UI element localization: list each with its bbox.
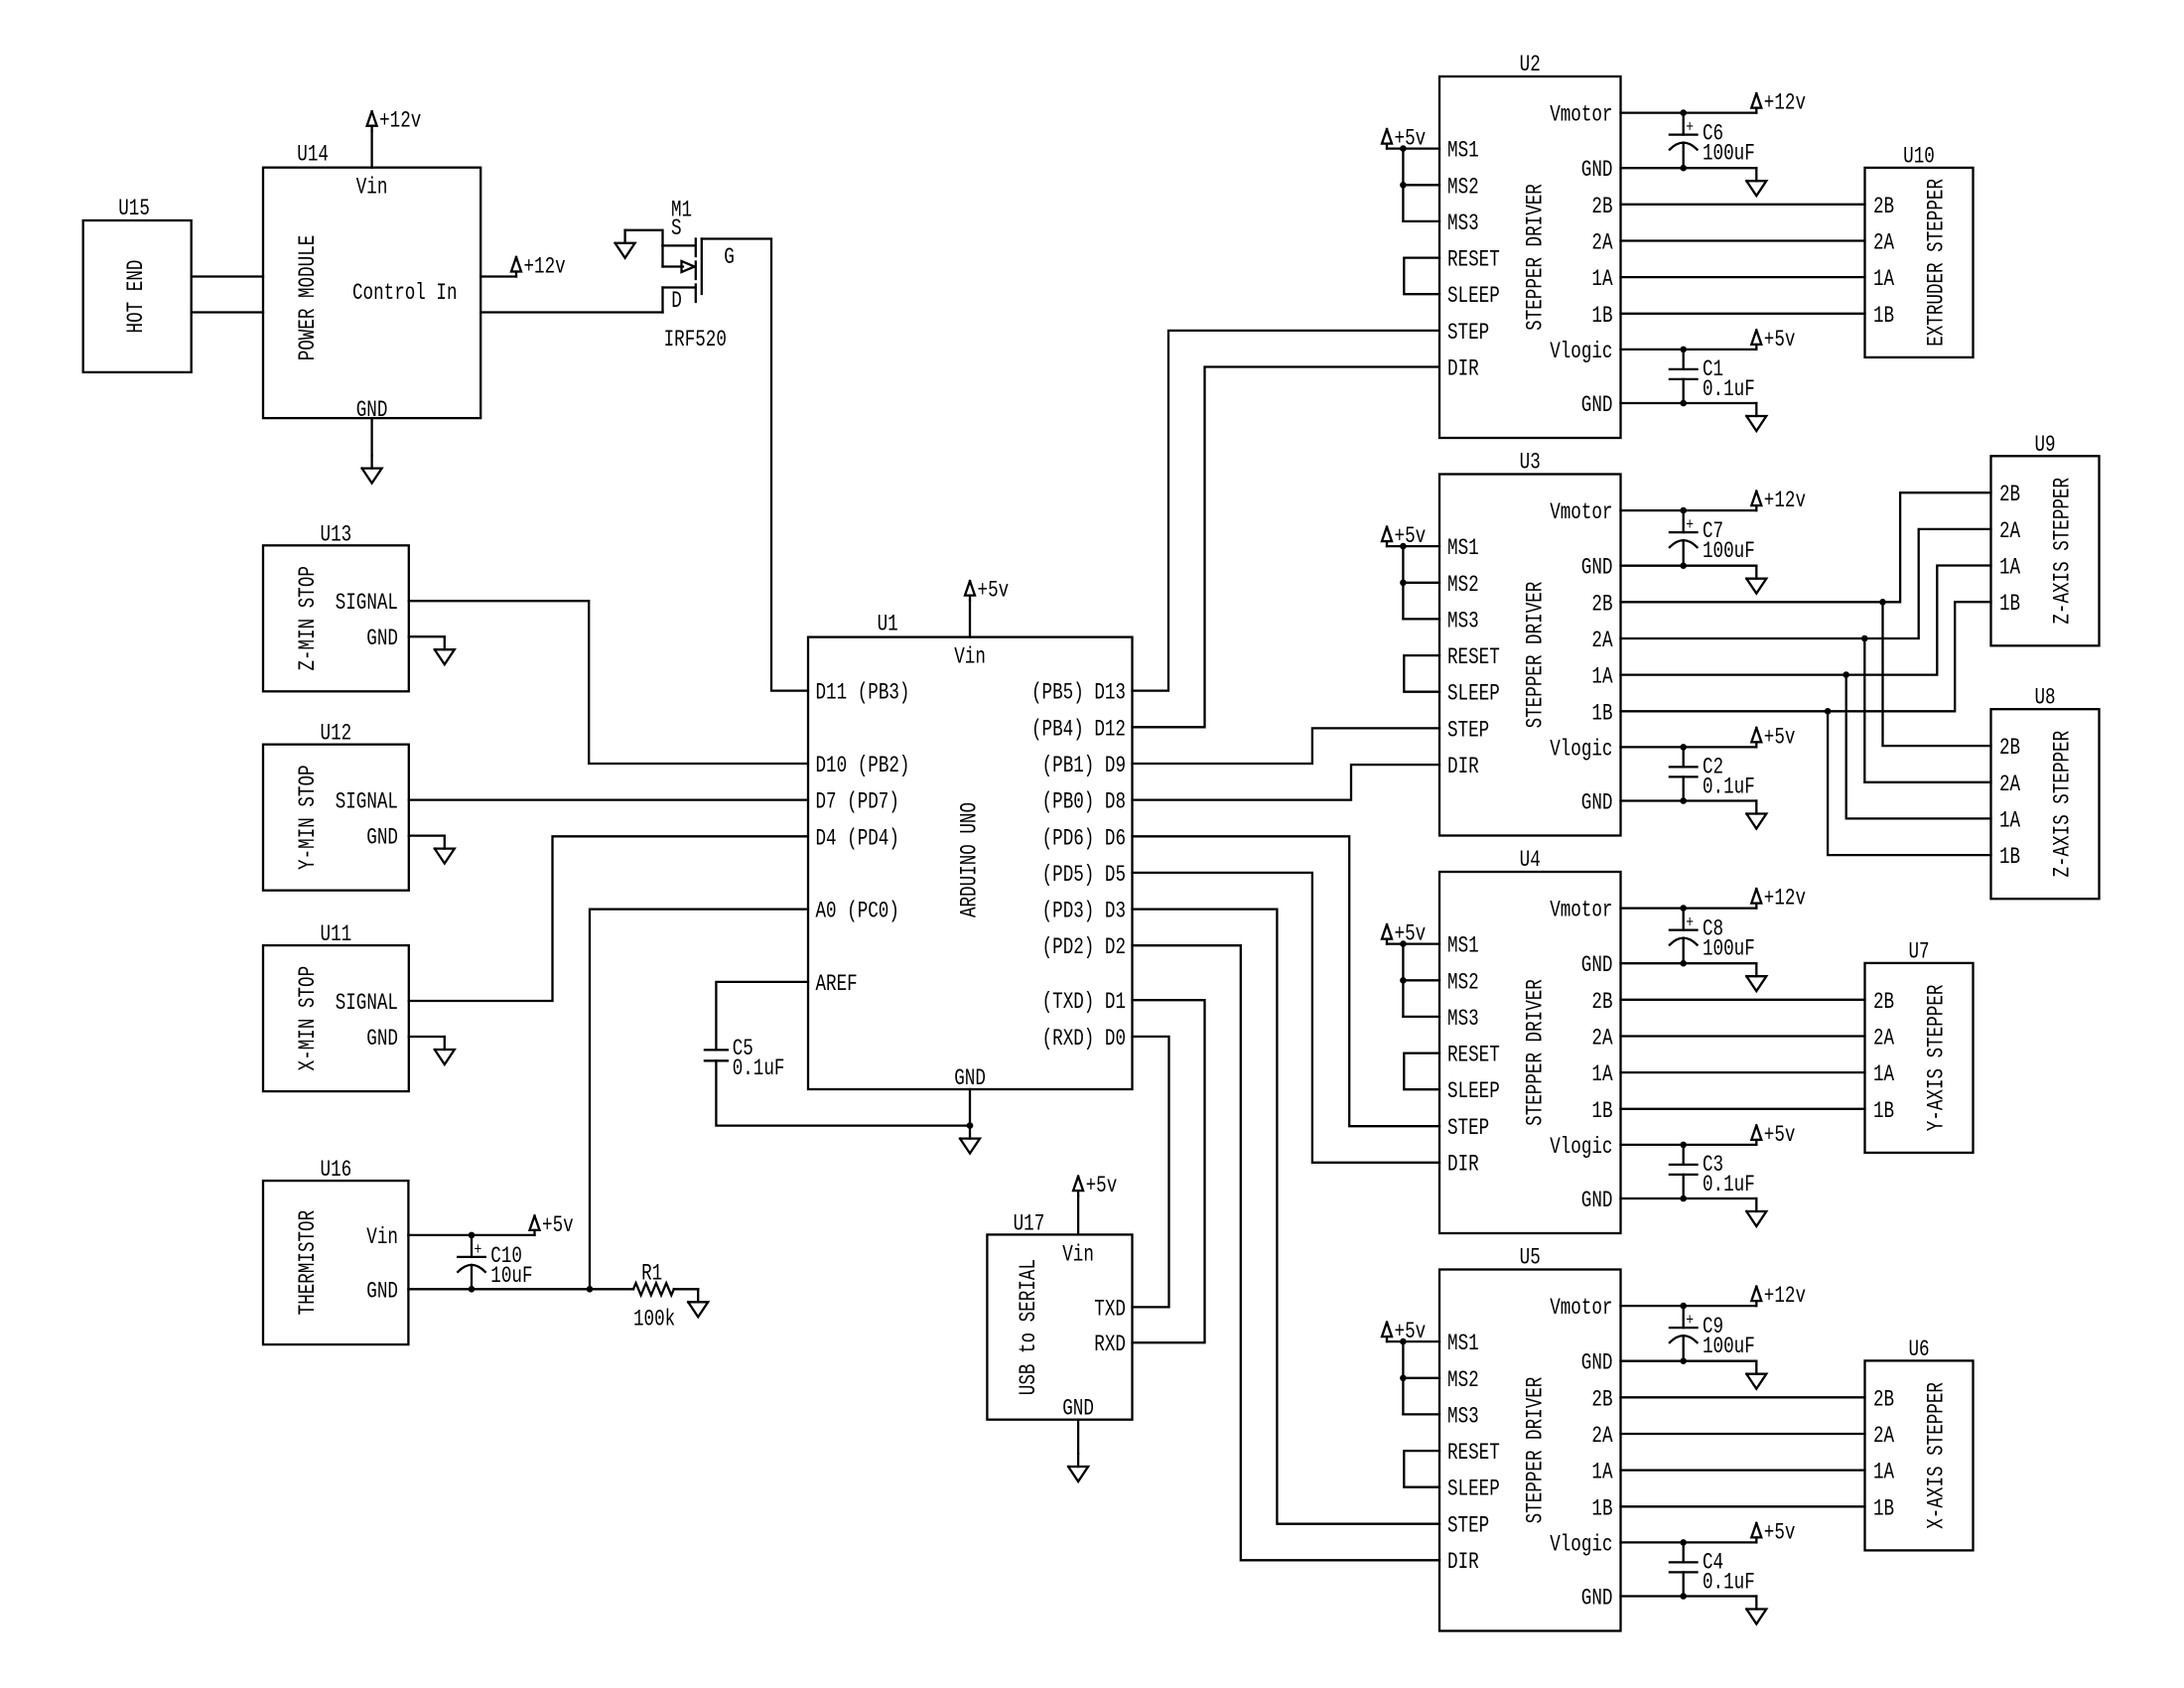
svg-text:STEPPER DRIVER: STEPPER DRIVER [1522, 979, 1548, 1126]
svg-text:RXD: RXD [1094, 1332, 1126, 1357]
svg-text:Vlogic: Vlogic [1550, 1134, 1612, 1160]
svg-text:DIR: DIR [1447, 356, 1479, 382]
svg-text:(PB5) D13: (PB5) D13 [1031, 680, 1126, 706]
svg-text:MS1: MS1 [1447, 933, 1479, 959]
svg-text:Z-AXIS STEPPER: Z-AXIS STEPPER [2050, 478, 2076, 625]
svg-text:MS2: MS2 [1447, 572, 1479, 598]
svg-text:USB to SERIAL: USB to SERIAL [1016, 1259, 1041, 1395]
svg-text:+5v: +5v [1086, 1173, 1118, 1198]
svg-text:Vin: Vin [954, 644, 986, 670]
svg-text:U17: U17 [1014, 1210, 1045, 1236]
svg-text:R1: R1 [641, 1260, 662, 1286]
svg-text:1B: 1B [1591, 700, 1612, 726]
svg-text:1A: 1A [1591, 1460, 1612, 1485]
svg-text:D10 (PB2): D10 (PB2) [816, 753, 910, 778]
svg-text:Vmotor: Vmotor [1550, 898, 1612, 923]
svg-text:STEPPER DRIVER: STEPPER DRIVER [1522, 1377, 1548, 1524]
svg-text:1A: 1A [1591, 664, 1612, 690]
svg-text:SLEEP: SLEEP [1447, 681, 1500, 707]
svg-text:HOT END: HOT END [123, 260, 149, 334]
svg-text:+12v: +12v [379, 108, 421, 134]
svg-text:2B: 2B [1591, 989, 1612, 1015]
svg-text:U13: U13 [321, 521, 352, 547]
svg-text:Y-MIN STOP: Y-MIN STOP [295, 765, 321, 870]
svg-text:100uF: 100uF [1703, 936, 1755, 962]
svg-text:0.1uF: 0.1uF [1703, 1172, 1755, 1197]
svg-text:100uF: 100uF [1703, 1334, 1755, 1359]
svg-text:Y-AXIS STEPPER: Y-AXIS STEPPER [1924, 984, 1950, 1131]
svg-text:STEPPER DRIVER: STEPPER DRIVER [1522, 184, 1548, 331]
svg-text:Vlogic: Vlogic [1550, 339, 1612, 364]
svg-text:+5v: +5v [1764, 327, 1796, 352]
svg-text:0.1uF: 0.1uF [1703, 1569, 1755, 1595]
svg-text:1B: 1B [1873, 1098, 1894, 1124]
svg-text:+12v: +12v [1764, 886, 1806, 912]
svg-text:STEPPER DRIVER: STEPPER DRIVER [1522, 582, 1548, 729]
svg-text:(PB0) D8: (PB0) D8 [1042, 789, 1126, 815]
svg-text:POWER MODULE: POWER MODULE [295, 235, 321, 361]
svg-text:(PB1) D9: (PB1) D9 [1042, 753, 1126, 778]
svg-text:GND: GND [1581, 1188, 1613, 1213]
svg-text:+: + [1686, 119, 1694, 138]
svg-text:U7: U7 [1908, 938, 1929, 964]
svg-text:1B: 1B [1591, 1495, 1612, 1521]
svg-text:EXTRUDER STEPPER: EXTRUDER STEPPER [1924, 179, 1950, 347]
svg-text:0.1uF: 0.1uF [1703, 774, 1755, 799]
svg-text:STEP: STEP [1447, 320, 1489, 346]
svg-text:(PD5) D5: (PD5) D5 [1042, 862, 1126, 888]
svg-text:MS2: MS2 [1447, 1367, 1479, 1393]
svg-text:(PD3) D3: (PD3) D3 [1042, 899, 1126, 924]
svg-text:1A: 1A [1873, 266, 1894, 292]
svg-text:U3: U3 [1520, 450, 1541, 476]
svg-text:STEP: STEP [1447, 1115, 1489, 1141]
svg-text:Control In: Control In [352, 280, 458, 306]
svg-text:SLEEP: SLEEP [1447, 1477, 1500, 1502]
svg-text:1B: 1B [1591, 303, 1612, 329]
svg-text:2B: 2B [1591, 194, 1612, 219]
svg-text:U9: U9 [2034, 432, 2055, 458]
svg-text:2A: 2A [1999, 518, 2020, 544]
svg-text:+5v: +5v [1395, 1319, 1427, 1344]
svg-text:100uF: 100uF [1703, 538, 1755, 564]
svg-text:RESET: RESET [1447, 1043, 1500, 1068]
svg-text:DIR: DIR [1447, 1549, 1479, 1575]
svg-text:GND: GND [1581, 1350, 1613, 1376]
svg-text:GND: GND [1581, 1586, 1613, 1612]
svg-text:Vin: Vin [366, 1224, 398, 1250]
svg-text:2B: 2B [1591, 1386, 1612, 1412]
svg-text:GND: GND [1062, 1396, 1094, 1422]
svg-text:1B: 1B [1873, 303, 1894, 329]
svg-text:+12v: +12v [1764, 1283, 1806, 1309]
svg-text:(RXD) D0: (RXD) D0 [1042, 1026, 1126, 1052]
svg-text:AREF: AREF [816, 971, 858, 997]
svg-text:(PD6) D6: (PD6) D6 [1042, 825, 1126, 851]
svg-text:+5v: +5v [1764, 724, 1796, 750]
svg-text:MS2: MS2 [1447, 969, 1479, 995]
svg-text:(TXD) D1: (TXD) D1 [1042, 989, 1126, 1015]
svg-text:2A: 2A [1591, 1423, 1612, 1449]
svg-text:X-MIN STOP: X-MIN STOP [295, 966, 321, 1071]
svg-text:2B: 2B [1873, 1386, 1894, 1412]
svg-text:U6: U6 [1908, 1336, 1929, 1362]
svg-text:1A: 1A [1999, 555, 2020, 581]
svg-text:+5v: +5v [1764, 1519, 1796, 1545]
svg-text:+12v: +12v [1764, 488, 1806, 513]
svg-text:2A: 2A [1873, 1423, 1894, 1449]
svg-text:DIR: DIR [1447, 1152, 1479, 1178]
svg-text:SLEEP: SLEEP [1447, 1078, 1500, 1104]
svg-text:G: G [724, 244, 735, 270]
svg-text:GND: GND [954, 1065, 986, 1091]
svg-text:U16: U16 [321, 1157, 352, 1183]
svg-text:Vmotor: Vmotor [1550, 1295, 1612, 1321]
svg-text:+12v: +12v [524, 254, 566, 280]
svg-text:+: + [475, 1241, 482, 1260]
svg-text:1A: 1A [1591, 1061, 1612, 1087]
svg-text:U2: U2 [1520, 52, 1541, 77]
svg-text:ARDUINO UNO: ARDUINO UNO [957, 802, 983, 917]
svg-text:+5v: +5v [1764, 1122, 1796, 1148]
svg-text:1A: 1A [1999, 807, 2020, 833]
svg-text:Vin: Vin [1062, 1241, 1094, 1267]
svg-text:STEP: STEP [1447, 717, 1489, 743]
svg-text:2B: 2B [1873, 194, 1894, 219]
svg-text:RESET: RESET [1447, 644, 1500, 670]
svg-text:100uF: 100uF [1703, 141, 1755, 167]
svg-text:2A: 2A [1873, 230, 1894, 256]
svg-text:SIGNAL: SIGNAL [336, 789, 398, 815]
svg-text:(PD2) D2: (PD2) D2 [1042, 934, 1126, 960]
svg-text:U10: U10 [1903, 143, 1935, 169]
svg-text:DIR: DIR [1447, 754, 1479, 779]
svg-text:Vlogic: Vlogic [1550, 1531, 1612, 1557]
svg-text:2A: 2A [1591, 230, 1612, 256]
svg-text:SLEEP: SLEEP [1447, 283, 1500, 309]
svg-text:U14: U14 [297, 142, 329, 168]
svg-text:(PB4) D12: (PB4) D12 [1031, 716, 1126, 742]
svg-text:GND: GND [366, 1278, 398, 1304]
svg-text:2A: 2A [1999, 772, 2020, 797]
svg-text:+: + [1686, 914, 1694, 933]
svg-text:GND: GND [366, 1026, 398, 1052]
svg-text:2B: 2B [1999, 482, 2020, 507]
svg-text:MS1: MS1 [1447, 1331, 1479, 1356]
svg-text:2A: 2A [1873, 1026, 1894, 1052]
svg-text:D4 (PD4): D4 (PD4) [816, 825, 899, 851]
svg-text:100k: 100k [633, 1306, 675, 1332]
svg-text:IRF520: IRF520 [664, 327, 727, 352]
svg-text:+: + [1686, 1312, 1694, 1331]
svg-text:2B: 2B [1873, 989, 1894, 1015]
svg-text:10uF: 10uF [490, 1263, 532, 1289]
svg-text:D7 (PD7): D7 (PD7) [816, 789, 899, 815]
svg-text:STEP: STEP [1447, 1512, 1489, 1538]
svg-text:2B: 2B [1591, 591, 1612, 617]
svg-text:2A: 2A [1591, 1026, 1612, 1052]
svg-text:THERMISTOR: THERMISTOR [295, 1210, 321, 1316]
svg-text:GND: GND [1581, 952, 1613, 978]
svg-text:GND: GND [1581, 555, 1613, 581]
svg-text:1B: 1B [1873, 1495, 1894, 1521]
svg-text:U4: U4 [1520, 847, 1541, 873]
svg-text:MS2: MS2 [1447, 174, 1479, 200]
svg-text:1A: 1A [1873, 1061, 1894, 1087]
svg-text:GND: GND [1581, 157, 1613, 183]
svg-text:MS3: MS3 [1447, 608, 1479, 633]
svg-text:MS1: MS1 [1447, 138, 1479, 164]
svg-text:Vmotor: Vmotor [1550, 102, 1612, 128]
svg-text:0.1uF: 0.1uF [1703, 376, 1755, 402]
svg-text:+12v: +12v [1764, 90, 1806, 116]
svg-text:Z-MIN STOP: Z-MIN STOP [295, 566, 321, 671]
svg-text:U12: U12 [321, 721, 352, 747]
svg-text:MS1: MS1 [1447, 535, 1479, 561]
svg-text:1A: 1A [1873, 1460, 1894, 1485]
svg-text:MS3: MS3 [1447, 211, 1479, 236]
svg-text:D: D [671, 288, 682, 314]
svg-text:+5v: +5v [1395, 921, 1427, 947]
svg-text:MS3: MS3 [1447, 1006, 1479, 1032]
svg-text:TXD: TXD [1094, 1296, 1126, 1322]
svg-text:GND: GND [1581, 790, 1613, 816]
svg-text:D11 (PB3): D11 (PB3) [816, 680, 910, 706]
svg-text:1B: 1B [1591, 1098, 1612, 1124]
svg-text:U1: U1 [878, 612, 898, 637]
svg-text:GND: GND [366, 626, 398, 651]
svg-text:+5v: +5v [978, 578, 1010, 604]
svg-text:MS3: MS3 [1447, 1403, 1479, 1429]
svg-text:X-AXIS STEPPER: X-AXIS STEPPER [1924, 1382, 1950, 1529]
svg-text:1B: 1B [1999, 591, 2020, 617]
svg-text:U8: U8 [2034, 685, 2055, 711]
svg-text:SIGNAL: SIGNAL [336, 590, 398, 616]
svg-text:1A: 1A [1591, 266, 1612, 292]
svg-text:U11: U11 [321, 921, 352, 947]
svg-text:+5v: +5v [1395, 126, 1427, 152]
svg-text:SIGNAL: SIGNAL [336, 990, 398, 1016]
svg-text:0.1uF: 0.1uF [733, 1055, 785, 1081]
svg-text:+5v: +5v [542, 1212, 574, 1238]
svg-text:+: + [1686, 516, 1694, 535]
svg-text:U15: U15 [118, 196, 150, 221]
svg-text:+5v: +5v [1395, 523, 1427, 549]
svg-text:2A: 2A [1591, 628, 1612, 653]
svg-text:Vlogic: Vlogic [1550, 736, 1612, 762]
svg-text:1B: 1B [1999, 844, 2020, 870]
svg-text:2B: 2B [1999, 735, 2020, 761]
svg-text:U5: U5 [1520, 1245, 1541, 1271]
svg-text:Vmotor: Vmotor [1550, 499, 1612, 525]
svg-text:S: S [671, 215, 682, 241]
svg-text:RESET: RESET [1447, 247, 1500, 273]
svg-text:GND: GND [1581, 392, 1613, 418]
svg-text:GND: GND [366, 825, 398, 851]
svg-text:RESET: RESET [1447, 1440, 1500, 1466]
svg-text:Vin: Vin [356, 175, 388, 201]
svg-text:Z-AXIS STEPPER: Z-AXIS STEPPER [2050, 731, 2076, 878]
svg-text:A0 (PC0): A0 (PC0) [816, 899, 899, 924]
